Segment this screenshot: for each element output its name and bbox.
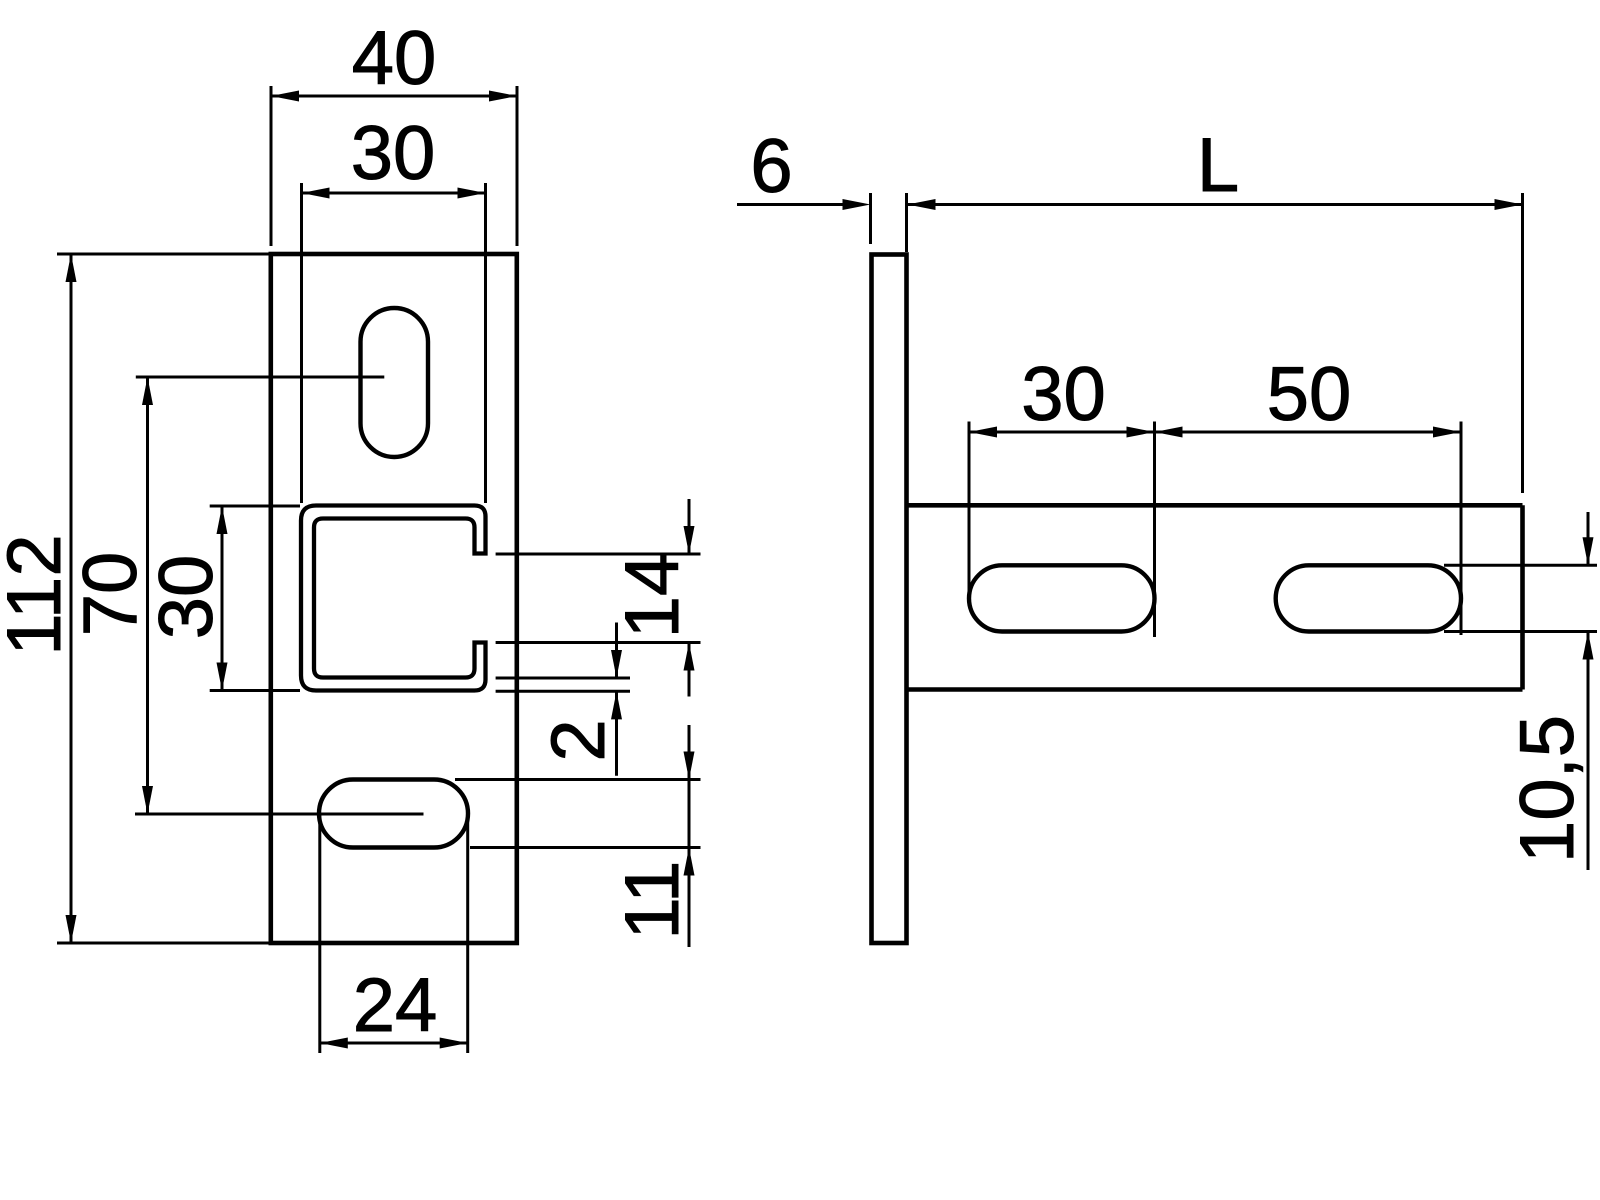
slot 1 (side view oblong): [969, 565, 1155, 631]
dimension L (channel length): extension line + dim line: [908, 193, 1523, 493]
dimension 30 right view (slot 1 length): extension lines + dim line: [969, 422, 1155, 638]
slot 2 (side view oblong): [1276, 565, 1461, 631]
svg-text:2: 2: [536, 719, 621, 761]
top slot (vertical oblong hole): [361, 308, 429, 457]
dimension 112 (plate height): extension lines + dim line: [57, 254, 270, 943]
dimension 50 (slot spacing): extension line + dim line: [1155, 422, 1462, 636]
plate outline (front view, 40 x 112): [271, 254, 517, 943]
dimension 70 (slot centres): extension lines + dim line: [135, 377, 424, 814]
dimension 2 arrows: [611, 650, 622, 678]
svg-text:30: 30: [144, 555, 229, 640]
dimension 14 arrows: [684, 526, 695, 554]
dimension 11 arrows: [684, 752, 695, 780]
svg-text:50: 50: [1267, 352, 1352, 437]
dimension 10,5 arrows: [1583, 537, 1594, 565]
C-channel profile (30 x 30, open right): [301, 506, 486, 691]
dimension 30 right view arrows: [969, 427, 997, 438]
dimension 24 arrows: [320, 1038, 348, 1049]
dimension 11 (bottom slot height): extension lines + dim line: [455, 725, 701, 947]
bottom slot (horizontal oblong hole 24 x 11): [319, 780, 468, 848]
dimension 2 (sheet thickness): extension lines + arrow tails: [496, 623, 630, 776]
dimension 30 left arrows: [217, 506, 228, 534]
svg-text:70: 70: [68, 552, 153, 637]
dimension 30 top (channel width): extension lines + dim line: [302, 183, 486, 503]
plate (side view, 6 thick): [872, 255, 907, 944]
dimension 70 arrows: [142, 377, 153, 405]
svg-text:6: 6: [750, 124, 792, 209]
channel (side view, length L): top, bottom, end: [907, 505, 1523, 689]
svg-text:30: 30: [1021, 352, 1106, 437]
svg-text:40: 40: [352, 16, 437, 101]
svg-text:11: 11: [610, 861, 695, 940]
svg-text:10,5: 10,5: [1505, 715, 1590, 863]
dimension 40 arrows: [271, 91, 299, 102]
svg-text:112: 112: [0, 534, 77, 655]
svg-text:L: L: [1197, 123, 1239, 208]
dimension L arrows: [908, 199, 936, 210]
dimension 50 arrows: [1155, 427, 1183, 438]
dimension 24 (bottom slot length): extension lines + dim line: [320, 815, 468, 1053]
svg-text:24: 24: [353, 963, 438, 1048]
svg-text:30: 30: [351, 111, 436, 196]
dimension 30 top arrows: [302, 188, 330, 199]
svg-text:14: 14: [610, 554, 695, 639]
dimension 30 left (channel height): extension lines + dim line: [210, 506, 300, 691]
dimension 10,5 (slot height): extension lines + arrow tails: [1444, 512, 1597, 870]
dimension 112 arrows: [66, 254, 77, 282]
dimension 6 arrow: [843, 199, 871, 210]
dimension 6 (plate thickness): extension lines + arrow tail: [737, 193, 907, 252]
dimension 14 (lip opening): extension lines + arrow tails: [496, 499, 701, 697]
dimension 40 (plate width): extension lines + dim line: [271, 86, 517, 246]
